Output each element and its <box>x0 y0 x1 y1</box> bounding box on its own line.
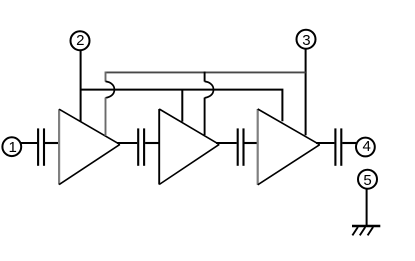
pin 3 label <box>294 33 318 48</box>
pin 4 label <box>355 139 379 154</box>
op-amp A2 <box>159 109 219 185</box>
op-amp A1 <box>59 109 120 184</box>
wire A3 to C4 <box>316 142 334 144</box>
wire C1 to A1 <box>45 142 59 144</box>
pin 1 <box>2 137 21 156</box>
wire C4 to pin4 <box>342 142 356 144</box>
wire C2 to A2 <box>145 142 159 144</box>
capacitor C2 <box>138 128 144 165</box>
pin 3 <box>297 30 316 49</box>
pin 5 label <box>356 173 380 188</box>
wire A1 to C2 <box>117 142 137 144</box>
pin 5 <box>358 170 377 189</box>
wire drop from lower bus at x=182.3 <box>181 90 183 122</box>
wire pin5 to ground <box>366 189 368 226</box>
wire A2 to C3 <box>216 142 237 144</box>
capacitor C4 <box>335 128 341 165</box>
wire drop from upper bus at x=105.5 <box>106 72 115 136</box>
pin 1 label <box>1 140 25 155</box>
capacitor C1 <box>38 128 44 165</box>
wire pin3 down to A3 top edge <box>305 49 307 135</box>
capacitor C3 <box>238 128 244 165</box>
wire pin1 to C1 <box>21 142 38 144</box>
wire pin2 down to A1 top edge <box>80 50 82 122</box>
pin 2 <box>71 31 90 50</box>
pin 2 label <box>68 33 92 48</box>
op-amp A3 <box>258 109 320 185</box>
ground <box>352 226 380 235</box>
wire drop from upper bus at x=204.6 <box>205 72 214 136</box>
upper bus wire <box>106 71 306 73</box>
pin 4 <box>356 138 375 157</box>
wire C3 to A3 <box>245 142 258 144</box>
lower bus wire <box>81 90 283 122</box>
